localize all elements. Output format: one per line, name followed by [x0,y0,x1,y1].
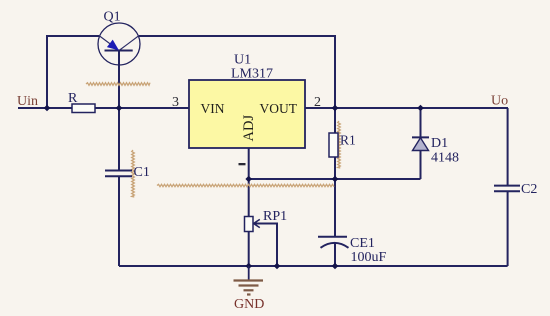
svg-text:LM317: LM317 [231,67,273,82]
junction dot ground rail GND [245,263,252,270]
hatched selection line right of R1 [338,121,341,168]
svg-text:Q1: Q1 [104,10,121,25]
junction dot output rail D1 [417,105,424,112]
wire RP1 bottom [248,232,250,267]
svg-text:VIN: VIN [201,101,225,116]
capacitor C1 [105,171,132,177]
svg-text:4148: 4148 [431,151,459,166]
capacitor C2 [494,186,520,192]
wire C1 bottom to ground rail [118,177,120,266]
junction dot Uin riser [44,105,51,112]
svg-text:U1: U1 [234,53,251,68]
junction dot output rail R1 [332,105,339,112]
wire ground rail [119,265,508,267]
svg-text:C2: C2 [521,182,537,197]
diode D1 [412,137,429,150]
wire CE1 bottom [334,243,336,266]
wire RP1 wiper [254,224,277,267]
wire CE1 top [334,179,336,237]
junction dot ADJ net left [245,176,252,183]
junction dot Q1 base / C1 [116,105,123,112]
wire D1 anode down [420,151,422,180]
wire riser left [47,36,99,108]
hatched selection line right of C1 [132,150,135,197]
svg-text:VOUT: VOUT [260,101,298,116]
junction dot ground rail CE1 [332,263,339,270]
wire C2 top [507,108,509,186]
hatched selection line under Q1 [86,83,150,86]
svg-text:R1: R1 [340,133,356,148]
svg-text:100uF: 100uF [351,250,387,265]
svg-text:RP1: RP1 [263,209,287,224]
hatched selection line mid (ADJ net) [157,184,334,186]
transistor Q1 [98,23,140,65]
svg-text:Uo: Uo [491,94,508,109]
svg-text:R: R [68,91,78,106]
svg-text:Uin: Uin [17,94,38,109]
potentiometer RP1 [245,217,260,232]
wire R1 top [334,108,336,133]
junction dot ground rail wiper [274,263,281,270]
wire C2 bottom [507,191,509,266]
svg-text:2: 2 [314,95,321,110]
wire Q1 collector to output rail [139,36,335,108]
capacitor CE1 [318,237,349,248]
wire input rail Uin to VIN [18,107,189,109]
wire ADJ horizontal to D1 [249,178,421,180]
svg-text:D1: D1 [431,136,448,151]
svg-text:3: 3 [172,95,179,110]
wire output rail VOUT to Uo [305,107,508,109]
svg-text:CE1: CE1 [350,236,375,251]
svg-text:C1: C1 [134,165,150,180]
wire R1 bottom [334,157,336,179]
wire ADJ down [248,148,250,217]
pin 1 (rotated) [239,163,246,165]
wire D1 cathode up [420,108,422,137]
junction dot ADJ net R1 [332,176,339,183]
resistor R [72,104,95,113]
resistor R1 [329,133,338,157]
svg-text:ADJ: ADJ [241,115,257,142]
svg-text:GND: GND [234,297,264,312]
wire Q1 base down to C1 [118,51,120,170]
op-amp regulator U1 [189,80,305,148]
ground [234,266,264,295]
